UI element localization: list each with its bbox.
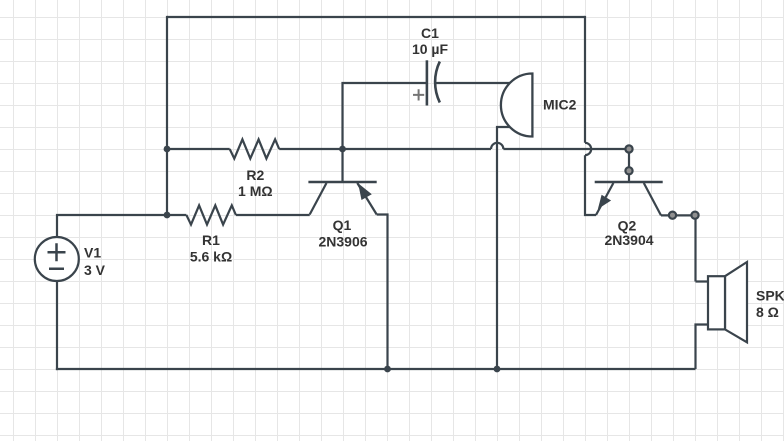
wire speaker top lead bbox=[696, 214, 709, 281]
junction node at (167,149) bbox=[164, 146, 171, 153]
terminal node Q2 base bbox=[625, 167, 632, 174]
wire Q2 collector row to speaker vertical bbox=[661, 214, 696, 216]
wire Q1 base lead bbox=[341, 149, 343, 181]
wire right vertical x585 upper (top rail to hop) bbox=[584, 16, 586, 143]
svg-text:1 MΩ: 1 MΩ bbox=[238, 183, 273, 199]
wire left vertical x167 bbox=[166, 16, 168, 215]
wire right vertical x585 lower (hop to Q2 emitter stub) bbox=[584, 155, 596, 216]
svg-text:MIC2: MIC2 bbox=[543, 97, 577, 113]
terminal node speaker wire end bbox=[691, 212, 698, 219]
svg-text:5.6 kΩ: 5.6 kΩ bbox=[190, 249, 232, 265]
resistor R1 zigzag bbox=[186, 205, 236, 224]
wire R2 row left segment bbox=[167, 148, 230, 150]
wire V1 top lead and R1 row left segment bbox=[56, 215, 187, 237]
wire C1 right lead to MIC2 bbox=[436, 82, 510, 84]
svg-text:R2: R2 bbox=[246, 167, 264, 183]
svg-text:10 µF: 10 µF bbox=[412, 41, 449, 57]
speaker SPK1 bbox=[708, 262, 747, 342]
transistor Q2 (NPN 2N3904) bbox=[595, 149, 663, 215]
wire V1 bottom lead bbox=[56, 281, 58, 370]
wire Q1 emitter to bottom bus bbox=[377, 213, 388, 369]
junction node at (167,215) bbox=[164, 212, 171, 219]
wire R2 row continues to Q2 base terminal bbox=[503, 148, 629, 150]
terminal node Q2 collector bbox=[669, 212, 676, 219]
svg-text:2N3906: 2N3906 bbox=[318, 234, 367, 250]
wire top rail bbox=[167, 16, 585, 18]
wire hop: vertical over horizontal at (585,149) bbox=[585, 143, 591, 155]
svg-text:R1: R1 bbox=[202, 232, 220, 248]
svg-text:Q1: Q1 bbox=[333, 217, 352, 233]
svg-text:3 V: 3 V bbox=[84, 262, 106, 278]
junction node at (497,369) bbox=[494, 366, 501, 373]
wire C1 left lead from node down to R2 row bbox=[343, 82, 427, 149]
microphone MIC2 bbox=[501, 74, 533, 137]
svg-text:8 Ω: 8 Ω bbox=[756, 304, 779, 320]
svg-text:V1: V1 bbox=[84, 245, 101, 261]
transistor Q1 (PNP 2N3906) bbox=[308, 182, 376, 215]
svg-text:SPK1: SPK1 bbox=[756, 288, 784, 304]
wire MIC2 bottom stub and vertical to ground bus bbox=[497, 126, 510, 369]
capacitor C1 bbox=[413, 60, 440, 105]
wire bottom ground bus bbox=[56, 368, 696, 370]
svg-text:2N3904: 2N3904 bbox=[604, 232, 653, 248]
svg-text:C1: C1 bbox=[421, 25, 439, 41]
wire R1 row right segment to Q1 collector bbox=[236, 214, 310, 216]
svg-text:Q2: Q2 bbox=[618, 217, 637, 233]
wire speaker bottom lead bbox=[696, 323, 709, 369]
junction node at (387.5,369) bbox=[384, 366, 391, 373]
wire hop: horizontal over vertical at (497,149) bbox=[491, 143, 503, 149]
terminal node Q2 base wire end bbox=[625, 145, 632, 152]
junction node at (342.5,149) bbox=[339, 146, 346, 153]
voltage source V1 bbox=[35, 237, 79, 281]
wire R2 row right segment to hop bbox=[279, 148, 491, 150]
resistor R2 zigzag bbox=[230, 139, 280, 158]
